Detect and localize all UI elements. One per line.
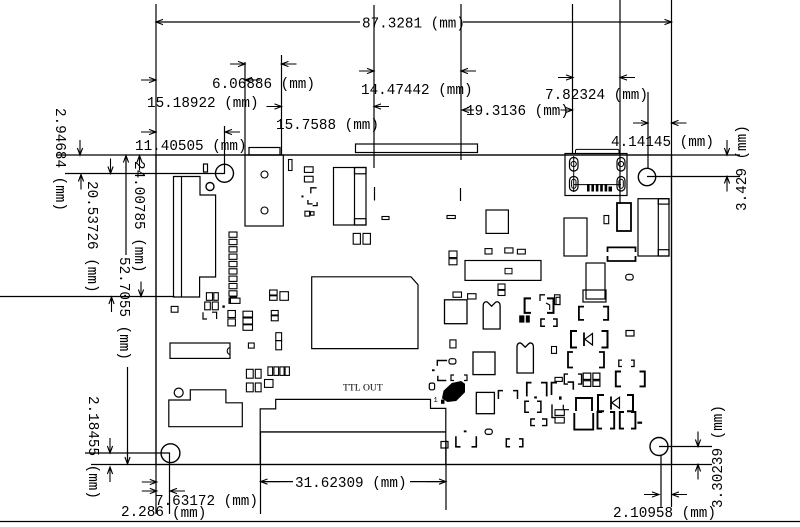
passive cluster D (left of CN3)	[304, 167, 313, 173]
svg-text:2.18455 (mm): 2.18455 (mm)	[84, 396, 100, 499]
dim 15.18922 right arrow	[245, 77, 260, 82]
svg-text:24.00785 (mm): 24.00785 (mm)	[130, 161, 146, 273]
dim 2.286 right arrow	[170, 488, 185, 493]
dim 3.30239 top arrow	[695, 432, 700, 447]
dim 3.30239 bottom arrow	[695, 465, 700, 480]
svg-text:3.30239 (mm): 3.30239 (mm)	[711, 405, 727, 508]
pin mark right of CN2	[289, 160, 293, 171]
connector CN2 top-left	[245, 155, 283, 226]
tiny pad L	[604, 216, 609, 224]
extension line y=453 bottom-left hole center (dim 2.18455)	[85, 452, 170, 454]
diode D2	[598, 395, 604, 411]
svg-text:4.14145 (mm): 4.14145 (mm)	[611, 135, 714, 151]
dim 15.7588 right arrow	[374, 104, 389, 109]
svg-text:52.7055 (mm): 52.7055 (mm)	[115, 257, 131, 360]
DC jack connector right edge	[638, 199, 669, 256]
mounting hole bottom-left	[161, 444, 180, 463]
dim 20.53726 top arrow	[108, 159, 113, 174]
inductor L1 bracket square	[525, 298, 531, 313]
dim 14.47442 right arrow	[461, 68, 476, 73]
dash mark pair	[382, 217, 389, 220]
svg-text:7.82324 (mm): 7.82324 (mm)	[545, 88, 648, 104]
dim 87.3281 line	[156, 21, 360, 23]
svg-text:3.429 (mm): 3.429 (mm)	[735, 125, 751, 211]
dim 6.06886 left arrow	[230, 61, 245, 66]
extension line x=245 (dim 15.18922/6.06886)	[244, 62, 246, 155]
window separator line at bottom	[0, 521, 800, 523]
dim 24.00785 bottom arrow	[138, 282, 143, 297]
connector CN3 (LVDS)	[334, 168, 367, 226]
dim 87.3281 right arrow	[657, 19, 672, 24]
svg-text:31.62309 (mm): 31.62309 (mm)	[295, 476, 407, 492]
mounting hole top-left	[216, 164, 234, 182]
bracket pair I	[541, 319, 545, 326]
passive cluster B (stacked pads)	[243, 311, 253, 317]
flat pad right of D1	[626, 331, 634, 337]
capacitor pair below CN3	[353, 233, 360, 244]
dim 20.53726 bottom arrow	[109, 297, 114, 312]
svg-text:2.10958 (mm): 2.10958 (mm)	[613, 506, 716, 522]
IC U2 notch	[227, 348, 230, 355]
bracket square M	[608, 247, 636, 252]
micro-USB contact pins	[587, 184, 590, 192]
svg-text:TTL OUT: TTL OUT	[343, 383, 383, 394]
svg-text:87.3281 (mm): 87.3281 (mm)	[362, 17, 465, 33]
passive pair below CN2	[270, 290, 278, 295]
board right edge extension line above	[671, 0, 673, 155]
dim 2.10958 left arrow	[644, 492, 659, 497]
component on top edge	[249, 148, 280, 156]
svg-text:2.94684 (mm): 2.94684 (mm)	[51, 108, 67, 211]
extension line x=446 TTL connector right (dim 31.62309)	[445, 440, 447, 510]
micro-USB pad 1	[570, 158, 579, 172]
connector CN4 bottom-left (stepped outline)	[169, 390, 243, 427]
micro-USB connector body	[565, 154, 627, 196]
dim 87.3281 left arrow	[156, 19, 171, 24]
bracket square AI	[531, 419, 535, 426]
dim 2.94684 bottom arrow	[78, 175, 83, 190]
dim 2.18455 bottom arrow	[107, 467, 112, 482]
chip O	[586, 263, 605, 299]
TTL OUT connector mid line	[260, 431, 446, 433]
fiducial circle above CN4	[174, 388, 183, 397]
dim 14.47442 left arrow	[359, 68, 374, 73]
corner pair AM	[456, 436, 461, 447]
micro-USB pad 3	[570, 177, 579, 192]
svg-text:(mm): (mm)	[172, 506, 206, 522]
chip AA	[473, 352, 495, 375]
quad pad group	[583, 373, 591, 379]
dim 19.3136 left arrow	[462, 107, 474, 112]
passive row cluster C	[246, 369, 253, 378]
svg-text:7.63172 (mm): 7.63172 (mm)	[155, 494, 258, 510]
bracket pair AN	[506, 439, 510, 447]
cluster bits J	[540, 295, 545, 301]
cluster left-edge bits W	[555, 377, 562, 381]
dim 31.62309 right arrow	[426, 479, 446, 484]
dim 3.429 bottom arrow	[724, 177, 729, 192]
connector CN1 left edge (stepped outline)	[174, 177, 216, 298]
angle mark V	[568, 382, 574, 390]
dim 2.94684 top arrow	[77, 140, 82, 155]
mounting hole bottom-right	[650, 438, 668, 456]
svg-text:14.47442 (mm): 14.47442 (mm)	[361, 83, 473, 99]
extension line x=661 bottom-right hole center (dim 2.10958)	[660, 455, 662, 507]
dim 24.00785 top arrow	[137, 156, 142, 171]
extension line x=260.5 TTL connector left (dim 31.62309)	[260, 432, 262, 514]
capacitor C2 with notch	[483, 302, 500, 329]
micro-USB shell mark	[609, 187, 613, 192]
dim 19.3136 right arrow	[561, 107, 573, 112]
chip AD	[476, 392, 494, 413]
tiny pad AC	[450, 340, 456, 348]
pin header column left	[229, 232, 237, 237]
connector CN3 bottom key	[355, 219, 367, 225]
extension line x=169.5 bottom-left hole center (dim 2.286/7.63172)	[169, 453, 171, 514]
bracket square AH	[525, 401, 529, 412]
pad pair E	[449, 251, 457, 258]
board bottom edge extension line left	[91, 464, 156, 466]
component near top-left hole	[204, 164, 208, 172]
dim 7.63172 left arrow	[142, 479, 157, 484]
dim 15.7588 left arrow	[267, 104, 282, 109]
extension line x=374 (dim 15.7588/14.47442)	[373, 5, 375, 168]
board bottom edge extension line right	[672, 464, 713, 466]
connector CN2 hole 1	[261, 171, 268, 178]
small capacitor pair C1	[276, 333, 282, 341]
svg-text:15.7588 (mm): 15.7588 (mm)	[276, 118, 379, 134]
svg-text:11.40505 (mm): 11.40505 (mm)	[135, 139, 247, 155]
dim 7.82324 right arrow	[620, 75, 635, 80]
connector CN3 inner line	[354, 168, 356, 226]
dim 4.14145 left arrow	[633, 120, 648, 125]
svg-text:6.06886 (mm): 6.06886 (mm)	[212, 77, 315, 93]
IC U2 with pin1 notch	[170, 343, 230, 358]
IC U1 main chip	[312, 277, 418, 349]
small oval N	[626, 274, 634, 280]
dim 6.06886 right arrow	[282, 61, 297, 66]
dim 4.14145 right arrow	[672, 120, 687, 125]
board left edge extension line above	[155, 4, 157, 155]
dim 11.40505 left arrow	[141, 129, 156, 134]
board top edge extension line right	[672, 154, 741, 156]
transistor Q3 black body	[443, 382, 465, 402]
svg-text:19.3136 (mm): 19.3136 (mm)	[466, 104, 569, 120]
chip K	[564, 218, 587, 256]
pin header column left wide pads	[229, 298, 240, 303]
small bracket pair T	[564, 374, 568, 384]
connector CN1 inner line	[181, 177, 183, 298]
pad pair F	[498, 284, 505, 290]
transistor Q1 pi-shape	[576, 398, 592, 411]
dark pad pair	[519, 315, 524, 322]
micro-USB shell lid line	[576, 149, 620, 153]
extension line y=296.5 (dim 24.00785/20.53726)	[0, 296, 175, 298]
micro-USB pad 2	[617, 158, 625, 172]
extension line y=176.5 top-right hole center (dim 3.429)	[647, 176, 740, 178]
connector CN3 top key	[355, 168, 367, 174]
svg-text:20.53726 (mm): 20.53726 (mm)	[83, 181, 99, 293]
corner mark pair AF	[527, 383, 532, 397]
oval AL	[485, 429, 492, 434]
tiny pad AB	[552, 347, 557, 354]
diode D1	[571, 331, 577, 348]
IC U4	[445, 300, 468, 324]
bracket square Q	[579, 307, 584, 320]
extension line x=224.5 above top-left hole (dim 11.40505)	[224, 126, 226, 174]
dim 52.7055 line lower segment	[127, 367, 129, 464]
small resistor R1	[248, 343, 254, 348]
tick AP	[464, 430, 467, 432]
chip P	[583, 290, 606, 302]
extension line x=281.5 (dim 6.06886/15.7588)	[281, 55, 283, 155]
bracket square R	[568, 352, 573, 368]
micro-USB pads crossbar	[574, 184, 621, 186]
bracket square X	[598, 412, 603, 429]
dash mark Z	[637, 422, 642, 424]
wide component	[465, 261, 541, 281]
micro-USB pad 4	[617, 177, 625, 192]
pads G	[453, 292, 462, 297]
extension line y=446.5 bottom-right hole center (dim 3.30239)	[659, 446, 712, 448]
dot AK	[534, 396, 537, 398]
fiducial circle near top-left hole	[206, 183, 214, 191]
centerline dash x=374 inside board	[374, 187, 376, 201]
connector CN2 hole 2	[261, 207, 268, 214]
passive cluster A (right of CN1)	[206, 293, 212, 301]
corner mark AG	[552, 383, 558, 395]
bracket square U	[616, 372, 621, 387]
dim 2.286 left arrow	[142, 488, 157, 493]
extension line y=173.5 top-left hole center (dim 2.94684/20.53726)	[65, 173, 225, 175]
flat pad row	[485, 249, 492, 254]
DC jack bottom key	[658, 250, 669, 256]
capacitor C3 with notch	[517, 343, 533, 373]
dim 52.7055 line upper segment	[125, 158, 127, 255]
IC U3 square	[486, 210, 508, 233]
flat cable connector on top edge	[356, 144, 478, 153]
dim 11.40505 right arrow	[225, 129, 240, 134]
TTL OUT connector outline	[260, 399, 446, 464]
transistor Q3 pads	[441, 400, 445, 404]
wide component inner pad	[505, 268, 512, 273]
dim 2.10958 right arrow	[672, 492, 687, 497]
component with thick border	[617, 203, 631, 231]
mounting hole top-right	[638, 168, 655, 185]
tiny pad H	[556, 297, 560, 304]
extension line x=572.5 (dim 19.3136/7.82324)	[572, 4, 574, 154]
dim 31.62309 left arrow	[261, 479, 281, 484]
extension line x=461 (dim 14.47442/19.3136)	[460, 4, 462, 160]
dim 52.7055 bottom arrow	[125, 449, 130, 464]
bracket AJ	[552, 404, 556, 417]
small bracket pair S	[619, 360, 622, 366]
bracket square Y	[620, 412, 624, 429]
board outline (PCB edge)	[156, 155, 672, 465]
marks near Q3	[437, 361, 447, 366]
transistor Q2 u-shape	[574, 413, 593, 430]
micro-USB left pads centerline	[573, 156, 575, 192]
board top edge extension line left	[56, 154, 156, 156]
corner mark pair AE	[498, 391, 503, 399]
DC jack inner line	[657, 199, 659, 256]
board left edge extension line below	[155, 465, 157, 515]
dim 31.62309 line	[261, 481, 294, 483]
dim 2.18455 top arrow	[107, 438, 112, 453]
svg-text:15.18922 (mm): 15.18922 (mm)	[147, 96, 259, 112]
svg-text:1: 1	[434, 397, 438, 405]
extension line x=648 top-right hole center (dim 4.14145)	[647, 92, 649, 168]
dim 7.82324 left arrow	[558, 75, 573, 80]
dim 3.429 top arrow	[724, 140, 729, 155]
board right edge extension line below	[671, 465, 673, 508]
dim 52.7055 top arrow	[123, 156, 128, 171]
dim 15.18922 left arrow	[141, 77, 156, 82]
DC jack top key	[658, 199, 669, 204]
svg-text:2.286: 2.286	[121, 505, 164, 521]
centerline dash x=461 inside board	[460, 188, 462, 201]
pad AO	[441, 442, 448, 449]
extension line x=620 (dim 7.82324)	[619, 0, 621, 204]
